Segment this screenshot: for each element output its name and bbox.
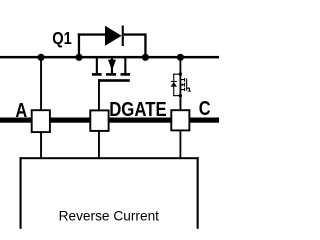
label Q1 <box>52 30 72 48</box>
wire: C branch from rail to internal FET <box>180 58 182 110</box>
node: rail junction at diode anode branch <box>75 54 82 61</box>
svg-text:A: A <box>15 98 27 121</box>
wire: top rail (anode-cathode net) <box>0 56 219 59</box>
node: rail junction at C branch <box>177 54 184 61</box>
wire: C pin to block <box>180 130 182 157</box>
transistor Q1 gate plate <box>98 79 130 82</box>
node: M1 source junction dot <box>179 94 182 97</box>
node: rail junction at A branch <box>37 54 44 61</box>
internal MOSFET M1 body diode loop wire <box>173 74 180 97</box>
internal MOSFET M1 channel, stubs and gate <box>180 78 191 92</box>
node: M1 drain junction dot <box>179 72 182 75</box>
diode D1 triangle and cathode bar <box>105 26 124 46</box>
wire: A pin to block <box>40 131 42 158</box>
wire: DGATE pin to block <box>98 131 100 158</box>
label A <box>15 98 27 121</box>
label DGATE <box>109 97 166 120</box>
label Reverse Current <box>59 209 160 224</box>
internal MOSFET M1 substrate arrow <box>180 83 184 86</box>
transistor Q1 contact bars <box>92 73 130 76</box>
transistor Q1 right (drain) lead <box>124 58 126 74</box>
wire: Q1 gate lead to DGATE pin <box>98 79 100 110</box>
transistor Q1 left (source) lead <box>96 58 98 74</box>
diode D1 (Q1 body diode) anode wire <box>78 33 106 57</box>
pin box A <box>32 110 50 132</box>
bus: thick horizontal trace <box>0 118 219 123</box>
transistor Q1 body-diode arrow <box>108 58 116 74</box>
diode D1 cathode wire <box>124 33 147 57</box>
wire: M1 source to C pin <box>180 96 182 111</box>
node: rail junction at diode cathode branch <box>142 54 149 61</box>
internal MOSFET M1 body diode (triangle + bar) <box>171 81 178 87</box>
wire: A pin to rail <box>40 58 42 110</box>
svg-text:C: C <box>199 96 211 119</box>
pin box DGATE <box>90 110 108 130</box>
pin box C <box>171 110 189 130</box>
svg-text:DGATE: DGATE <box>109 97 166 120</box>
block: Reverse Current controller box (top, left, right edges; bottom cropped) <box>20 157 199 229</box>
label C <box>199 96 211 119</box>
svg-text:Reverse Current: Reverse Current <box>59 209 160 224</box>
svg-text:Q1: Q1 <box>52 30 72 48</box>
